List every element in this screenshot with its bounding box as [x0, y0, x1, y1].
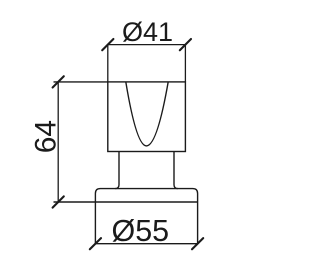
oblique tick at 64 top end — [53, 76, 64, 87]
oblique tick at 64 bottom end — [53, 196, 64, 207]
flange step edge line / bottom extension line of 64 dimension — [54, 201, 198, 203]
body outline (main cylinder, profile rectangle) — [108, 82, 186, 152]
oblique tick at Ø55 left end — [90, 238, 101, 249]
svg-text:Ø55: Ø55 — [111, 214, 169, 248]
dimension line Ø41 (top) — [108, 44, 186, 46]
dimension line 64 (left, vertical) — [57, 82, 59, 202]
svg-text:Ø41: Ø41 — [122, 17, 173, 47]
oblique tick at Ø55 right end — [192, 238, 203, 249]
dimension line Ø55 (bottom) — [95, 243, 197, 245]
conical recess profile (parabolic cup inside body) — [126, 82, 168, 146]
extension line right of Ø41 — [184, 45, 186, 82]
oblique tick at Ø41 right end — [180, 39, 191, 50]
neck left profile with fillet into flange — [115, 152, 119, 189]
extension line left of Ø41 — [107, 45, 109, 82]
oblique tick at Ø41 left end — [102, 39, 113, 50]
svg-text:64: 64 — [30, 120, 63, 153]
base flange outline (rounded top corners, sides extended as extension lines) — [95, 189, 197, 244]
top extension line of 64 dimension (collinear with body top) — [54, 81, 108, 83]
neck right profile with fillet into flange — [174, 152, 178, 189]
